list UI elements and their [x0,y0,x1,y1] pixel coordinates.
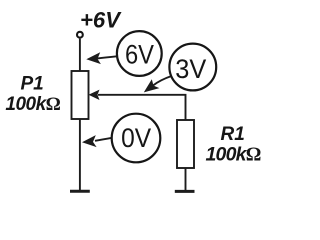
wire P1 bottom to ground [79,119,81,190]
voltage bubble 6V [117,31,162,76]
callout arrow from 3V bubble to wiper wire [153,76,172,86]
voltage bubble 0V [112,114,161,163]
terminal +6V [77,32,83,38]
svg-text:+6V: +6V [80,7,122,32]
callout arrow from 0V bubble to left wire [95,138,112,141]
voltage bubble 3V [169,44,216,91]
wiper arrowhead of P1 [89,90,100,100]
wire wiper to R1 top [98,95,186,120]
ground left [70,190,90,193]
potentiometer P1 body [72,71,89,119]
wire R1 bottom to ground [185,168,187,190]
svg-text:6V: 6V [125,39,154,69]
svg-text:100kΩ: 100kΩ [206,143,261,165]
svg-text:P1: P1 [21,74,44,95]
svg-text:3V: 3V [175,54,206,84]
svg-text:100kΩ: 100kΩ [5,94,60,115]
ground right [175,190,195,193]
wire terminal to P1 top [79,39,81,72]
callout arrow from 6V bubble to top wire [98,56,117,58]
resistor R1 body [177,120,194,168]
svg-text:R1: R1 [221,124,245,145]
svg-text:0V: 0V [121,123,151,153]
